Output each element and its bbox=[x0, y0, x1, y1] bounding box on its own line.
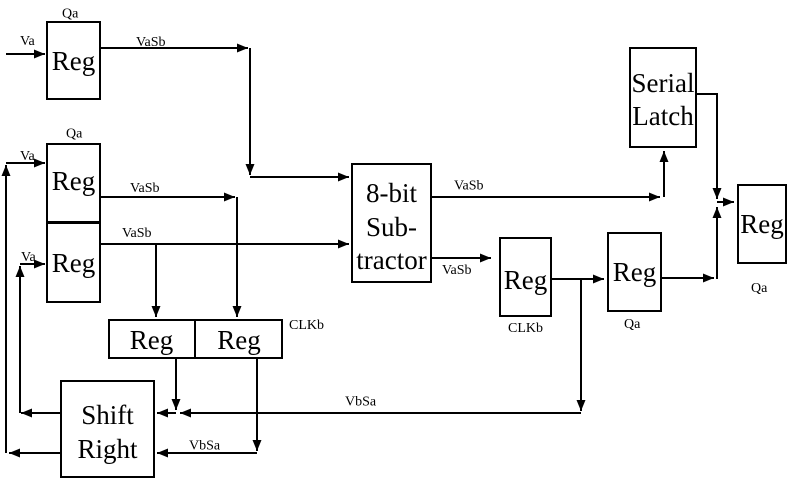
svg-text:Reg: Reg bbox=[52, 166, 96, 196]
svg-text:Va: Va bbox=[20, 149, 36, 164]
svg-text:Qa: Qa bbox=[624, 317, 641, 332]
svg-text:CLKb: CLKb bbox=[508, 321, 543, 336]
svg-text:Va: Va bbox=[21, 250, 37, 265]
svg-text:Shift: Shift bbox=[81, 400, 134, 430]
svg-text:VaSb: VaSb bbox=[122, 226, 152, 241]
svg-text:Qa: Qa bbox=[66, 127, 83, 142]
svg-text:CLKb: CLKb bbox=[289, 318, 324, 333]
svg-text:Reg: Reg bbox=[504, 265, 548, 295]
svg-text:Reg: Reg bbox=[740, 209, 784, 239]
svg-text:VbSa: VbSa bbox=[345, 395, 377, 410]
svg-text:Sub-: Sub- bbox=[366, 212, 417, 242]
svg-text:VaSb: VaSb bbox=[442, 263, 472, 278]
svg-text:Reg: Reg bbox=[52, 46, 96, 76]
svg-text:Serial: Serial bbox=[632, 68, 695, 98]
svg-text:Reg: Reg bbox=[130, 325, 174, 355]
svg-text:VaSb: VaSb bbox=[130, 181, 160, 196]
svg-text:Right: Right bbox=[77, 434, 138, 464]
svg-text:tractor: tractor bbox=[356, 245, 426, 275]
svg-text:Qa: Qa bbox=[751, 281, 768, 296]
svg-text:Va: Va bbox=[20, 34, 36, 49]
svg-text:Reg: Reg bbox=[52, 248, 96, 278]
svg-text:Latch: Latch bbox=[632, 101, 694, 131]
svg-text:Reg: Reg bbox=[613, 257, 657, 287]
svg-text:Reg: Reg bbox=[217, 325, 261, 355]
svg-text:VbSa: VbSa bbox=[189, 439, 221, 454]
svg-text:Qa: Qa bbox=[62, 7, 79, 22]
svg-text:VaSb: VaSb bbox=[454, 179, 484, 194]
svg-text:8-bit: 8-bit bbox=[366, 178, 417, 208]
svg-text:VaSb: VaSb bbox=[136, 35, 166, 50]
